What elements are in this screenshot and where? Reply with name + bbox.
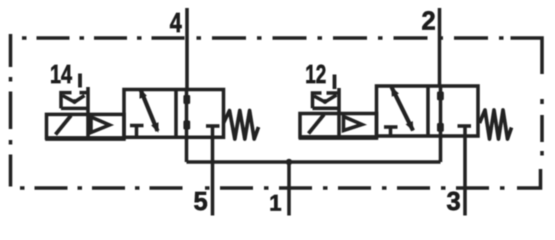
pilot box 14 bottom: [61, 107, 88, 111]
pilot box 14 top right segment: [80, 91, 88, 95]
valve V2 flow arrow (left square): [391, 87, 413, 132]
wire: manifold to port 1: [187, 160, 441, 164]
svg-text:4: 4: [170, 7, 182, 38]
enclosure border top: [22, 38, 542, 74]
pilot triangle V2: [344, 117, 363, 131]
pilot lead tick 12: [333, 75, 337, 90]
solenoid S1 slash: [56, 116, 72, 135]
flow blob top V1: [183, 95, 190, 104]
valve V2 blocked port T (left square): [384, 127, 398, 136]
enclosure border right: [540, 99, 544, 156]
solenoid S2 box: [300, 114, 377, 138]
valve V2 divider: [426, 86, 430, 136]
valve V1 divider: [174, 90, 178, 138]
pilot box 14 top/left: [61, 93, 72, 109]
pilot box 12 top/left: [313, 93, 322, 108]
valve V2 body: [377, 86, 479, 136]
wire: passage through valve V2 to manifold: [439, 86, 443, 162]
flow blob bottom V1: [183, 121, 190, 130]
solenoid S2 thick bottom: [299, 135, 379, 140]
valve V1 blocked port T (right square) + port line 5: [206, 126, 220, 216]
svg-text:14: 14: [50, 61, 73, 89]
svg-text:12: 12: [305, 59, 326, 89]
svg-text:1: 1: [269, 190, 281, 215]
valve V2 blocked port T (right square) + port line 3: [458, 126, 472, 216]
solenoid S1 box: [47, 114, 125, 138]
pilot box 12 chevron vertex: [323, 99, 328, 104]
port line 2: [438, 8, 442, 86]
enclosure border left: [9, 34, 13, 187]
valve V1 flow arrow (left square): [140, 88, 159, 132]
junction node manifold/port1: [286, 159, 292, 165]
pilot lead tick 14: [78, 74, 82, 88]
valve V1 body: [124, 90, 224, 138]
svg-text:2: 2: [422, 8, 436, 36]
solenoid S2 slash: [309, 115, 325, 134]
pilot box 12 top right segment: [327, 91, 339, 95]
svg-text:3: 3: [447, 188, 461, 216]
svg-text:5: 5: [194, 188, 208, 216]
pilot box 14 chevron vertex: [72, 99, 77, 104]
flow blob bottom V2: [437, 123, 444, 132]
wire: port 1 drop: [287, 162, 291, 216]
spring V1: [224, 111, 259, 140]
port line 4: [185, 8, 189, 89]
enclosure border bottom: [20, 169, 541, 188]
valve V1 blocked port T (left square): [130, 126, 144, 138]
solenoid S1 thick bottom: [45, 136, 126, 141]
pilot box 14 chevron: [63, 96, 85, 103]
pilot box 12 bottom: [313, 107, 340, 111]
solenoid S2 divider: [337, 88, 341, 137]
pilot triangle V1: [91, 117, 110, 133]
wire: passage through valve V1 to manifold: [185, 89, 189, 162]
spring V2: [480, 110, 512, 139]
solenoid S1 divider: [86, 87, 90, 138]
flow blob top V2: [437, 92, 444, 101]
pilot box 12 chevron: [314, 95, 337, 102]
